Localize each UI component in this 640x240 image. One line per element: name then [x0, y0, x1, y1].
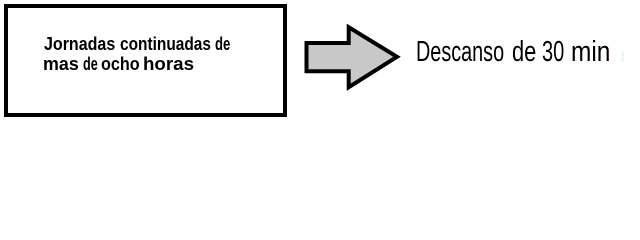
- box text line2 word: horas: [143, 55, 194, 73]
- box text line1 word: Jornadas: [44, 35, 115, 53]
- label word: 30: [542, 38, 564, 67]
- caret artifact: [621, 52, 624, 62]
- box text line2 word: ocho: [101, 55, 140, 73]
- box text line2 word: mas: [43, 55, 79, 73]
- box text line1 word: de: [215, 35, 230, 53]
- label word: de: [512, 38, 536, 67]
- box text line2 word: de: [83, 55, 98, 73]
- label word: min: [571, 38, 610, 67]
- block arrow connector A1 (points right): [0, 0, 640, 135]
- label word: Descanso: [416, 38, 504, 67]
- process box B1: [4, 4, 288, 118]
- box text line1 word: continuadas: [120, 35, 211, 53]
